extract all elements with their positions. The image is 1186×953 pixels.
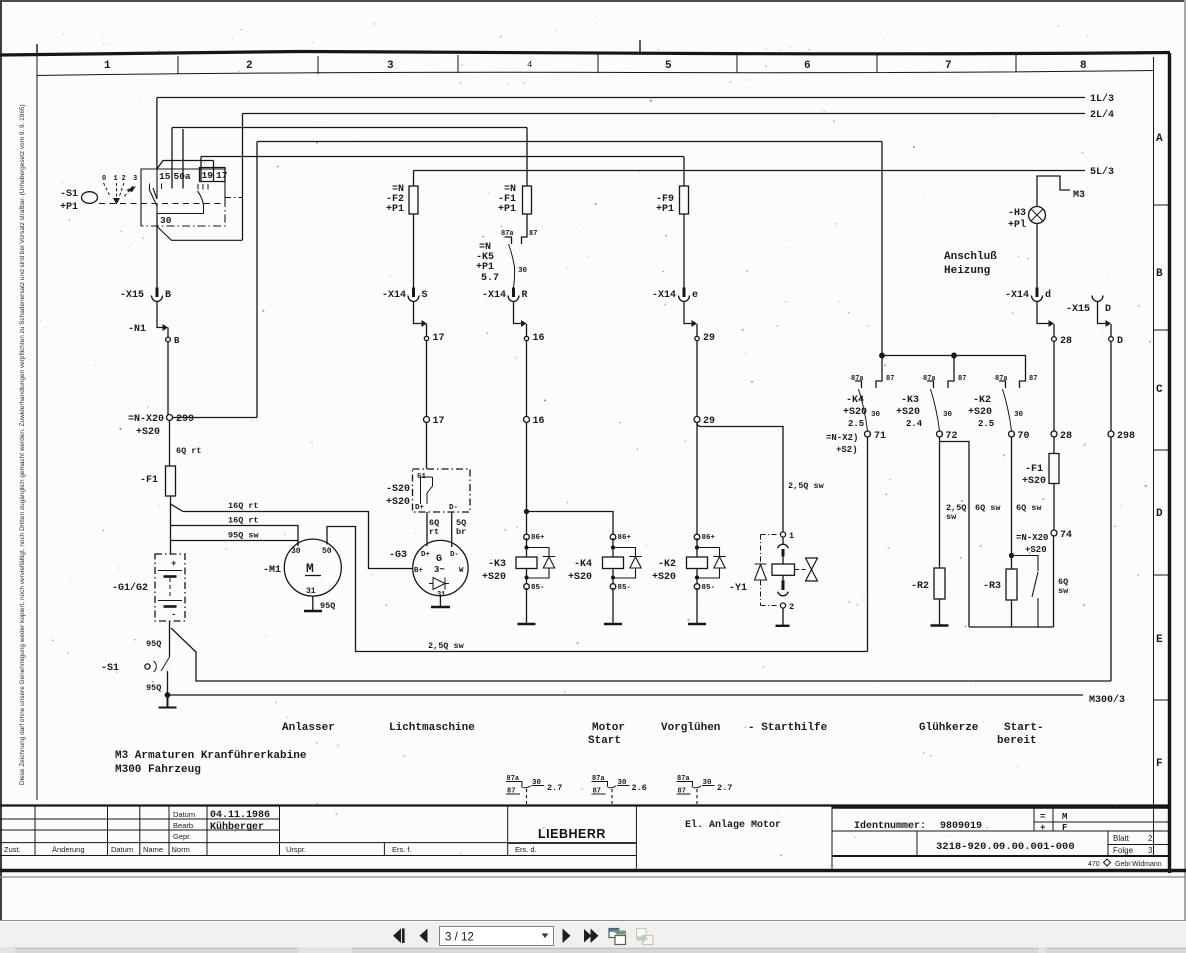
relay coil K4 (568, 534, 642, 624)
node D (1109, 337, 1114, 342)
fuse F2 +P1 (409, 186, 418, 214)
wire R2 to ground (939, 599, 941, 625)
fuse F1 battery (166, 466, 176, 496)
wire G3 ground (439, 596, 441, 607)
node 299 (167, 415, 173, 421)
wire to battery plus (170, 541, 172, 555)
fuse F9 +P1 (680, 186, 689, 214)
node 28 lower (1051, 431, 1057, 437)
switch bottom bevel to 2L/4 (157, 227, 243, 241)
wire F1 to contact K5 (522, 214, 528, 244)
wire 16Q rt to starter 30 (171, 504, 299, 546)
fuse F1 +S20 (1049, 454, 1059, 484)
wire node 72 to R2 (939, 437, 941, 568)
column numbers 1-8 (104, 60, 1087, 72)
battery G1/G2 (112, 554, 185, 621)
nav next icon (563, 929, 571, 944)
svg-text:3 / 12: 3 / 12 (445, 932, 474, 944)
row letters A-F (1156, 133, 1163, 770)
frame fold tick left (36, 44, 38, 56)
contact cross-ref K3 (2.7) (506, 775, 562, 804)
column ruler ticks (178, 52, 1016, 74)
ground symbol battery (159, 697, 177, 708)
node B (166, 337, 171, 342)
node 298 (1108, 431, 1114, 437)
wire 95Q sw to starter 30 (171, 526, 299, 541)
connector X14 pin R (512, 288, 515, 298)
wire bus to K4 contact column (257, 142, 882, 418)
battery isolator switch S1 (101, 657, 170, 693)
wire bus to fuse F1+P1 (172, 128, 527, 189)
frame fold tick middle (639, 40, 641, 55)
Y1 suppression diode (dash-dot links) (761, 535, 779, 606)
wire fuse to cable junction (171, 496, 184, 512)
row ruler ticks (1154, 205, 1169, 822)
drawing frame top thick line (0, 52, 1170, 56)
node 70 (1009, 431, 1015, 437)
relay contact K5 87a leg (505, 237, 512, 244)
printer mark 470 Gebr. Widmann (1088, 861, 1162, 868)
frame left vertical line (36, 56, 38, 800)
node 16 (524, 336, 528, 340)
node 28 (1052, 337, 1057, 342)
node 74 (1051, 530, 1057, 536)
terminal ticks (150, 184, 209, 190)
ignition switch block outline (141, 169, 225, 226)
wire bottom link (969, 536, 1054, 627)
junction K3/K4 feed (525, 510, 529, 514)
node 29 (695, 336, 699, 340)
wire 299 to bus (173, 417, 258, 419)
wire node 16 down (526, 341, 528, 417)
frame right thick border (1168, 53, 1171, 873)
wire 299 down (169, 421, 171, 467)
node junction ground bus (165, 693, 169, 697)
nav last-page icon (584, 929, 592, 943)
page frame bottom thick (0, 869, 1186, 872)
connector X14 pin d (1036, 288, 1039, 298)
wire node 16 to relay K3 (526, 423, 528, 534)
ground symbol M1 (304, 610, 322, 612)
ground symbol G3 (431, 606, 450, 608)
regulator S20 (386, 469, 470, 512)
snapshot tool icon (disabled) (637, 929, 654, 945)
wire 16Q rt to generator B+ (183, 512, 413, 569)
wire F9 to connector (683, 214, 685, 288)
wire F2 to connector (413, 214, 415, 288)
ruler line under column numbers (37, 71, 1153, 76)
generator G3 (389, 540, 468, 599)
page bottom thin line (0, 876, 1186, 878)
wire battery diagonal to frame bus (171, 628, 1111, 681)
wire junction to K4 coil (527, 512, 614, 534)
relay contact K4 (843, 356, 894, 432)
wire node D down (1110, 342, 1112, 432)
wire bus to fuse F9 (201, 157, 684, 187)
terminal box 19/17 (200, 161, 226, 182)
contact feed bus (junctions) (880, 353, 885, 358)
contact cross-ref K4 (2.6) (592, 775, 647, 804)
connector X14 pin S (412, 288, 415, 298)
wire ground bus M300/3 (168, 694, 1084, 696)
resistor R3 (1006, 569, 1017, 600)
wire battery minus down (169, 621, 171, 657)
wire 5L/3 bus (414, 171, 1086, 187)
switch dashed travel line (99, 203, 224, 205)
wire node 29 to valve Y1 (697, 423, 783, 532)
wire regulator D+ to G3 (426, 512, 428, 546)
starter motor M1 (263, 539, 341, 596)
switch blade left (149, 169, 204, 214)
page select box (440, 927, 554, 946)
nav prev icon (420, 929, 428, 944)
node 16 lower (524, 417, 530, 423)
wire M1 ground (312, 596, 314, 611)
terminal block N1 (128, 302, 168, 337)
wire connector R to node 16 (514, 302, 522, 324)
wire node 17 down (426, 341, 428, 417)
node 71 (865, 431, 871, 437)
relay contact K2 (968, 375, 1037, 431)
resistor R2 (934, 568, 945, 599)
wire lamp to connector d (1036, 224, 1038, 288)
switch blade right (198, 191, 204, 214)
wire node 29 to relay K2 (696, 423, 698, 534)
fuse F1 +P1 (523, 186, 532, 214)
title block (0, 806, 1168, 869)
solenoid valve Y1 (729, 531, 818, 626)
terminal labels 15 50a 19 17 (159, 170, 228, 182)
nav first-page icon (393, 929, 401, 944)
wire 1L/3 bus (157, 98, 1085, 170)
relay coil K3 (482, 534, 555, 624)
terminal 30 exit (156, 214, 158, 288)
node 29 lower (694, 417, 700, 423)
Y1 valve body (795, 569, 806, 571)
contact cross-ref K2 (2.7) (677, 775, 733, 804)
connector X14 pin e (683, 288, 686, 298)
frame right thin vertical (1153, 57, 1155, 855)
wire node 70 down (1011, 437, 1013, 569)
wire regulator D- to G3 (451, 512, 453, 547)
node 17 (424, 336, 428, 340)
wire node 72 branch right (940, 442, 970, 628)
wire connector S to node 17 (414, 302, 422, 324)
node 17 lower (424, 417, 430, 423)
wire connector d to node 28 (1037, 302, 1049, 324)
wire 2L/4 bus (243, 114, 1086, 241)
junction above R3 (1010, 554, 1014, 558)
switch roof bevel (157, 161, 214, 170)
indicator lamp H3 +P1 (1008, 207, 1046, 232)
relay contact K3 (896, 356, 966, 432)
wire F1 to node 74 (1053, 484, 1055, 531)
wire node 17 to regulator 61 (426, 423, 428, 470)
wire B to 299 (167, 342, 169, 415)
wire connector e to node 29 (684, 302, 692, 324)
relay coil K2 (652, 534, 726, 624)
wire 298 to frame bus (1110, 437, 1112, 681)
glow plug switch contact (1012, 556, 1039, 628)
ignition switch S1 +P1 (60, 175, 137, 213)
connector X15 pin B (120, 288, 171, 302)
terminal M3 bracket (1037, 176, 1070, 206)
wire M1 terminal 50 to 2,5Q sw run (327, 527, 868, 652)
wire node 28 down (1053, 342, 1055, 432)
ground symbol R2 (931, 624, 949, 626)
wire node 71 down to 2,5Q run (867, 437, 869, 652)
wire 28 to fuse F1 S20 (1053, 437, 1055, 454)
node 72 (937, 431, 943, 437)
wire node 29 down (696, 341, 698, 417)
relay contact K5 blade (509, 244, 515, 288)
wire 50a riser (182, 129, 184, 189)
snapshot tool icon (active) (609, 929, 626, 945)
wire contact bus (882, 356, 1026, 389)
connector X15 pin D (1092, 296, 1103, 302)
wire R3 to bottom link (1011, 600, 1013, 627)
